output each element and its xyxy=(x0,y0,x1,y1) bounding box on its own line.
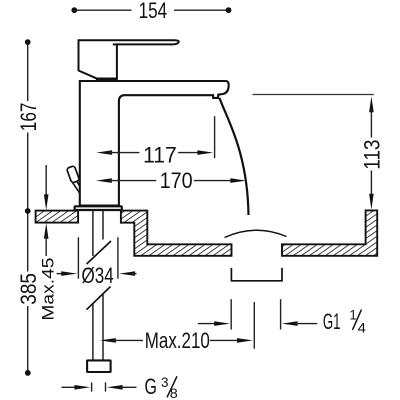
dimension 113 xyxy=(253,95,385,210)
pop-up waste dome xyxy=(225,230,287,237)
base flange xyxy=(75,206,122,210)
supply shank upper segment xyxy=(93,211,103,256)
svg-text:3: 3 xyxy=(161,374,169,390)
dimension 385 xyxy=(16,208,41,376)
svg-text:G1: G1 xyxy=(323,309,341,334)
faucet body and spout outline xyxy=(80,81,229,206)
svg-text:G: G xyxy=(145,374,157,399)
svg-text:1: 1 xyxy=(350,306,357,322)
dimension 170 xyxy=(96,168,246,193)
faucet handle lever and cartridge housing xyxy=(79,40,179,79)
svg-text:Max.210: Max.210 xyxy=(145,328,210,353)
supply shank lower segment xyxy=(93,294,103,361)
svg-text:Max.45: Max.45 xyxy=(38,258,57,321)
svg-text:113: 113 xyxy=(359,140,384,170)
svg-text:167: 167 xyxy=(16,103,41,132)
countertop right slab with right wall xyxy=(282,210,377,255)
side lever handle xyxy=(66,166,79,194)
svg-text:170: 170 xyxy=(160,168,193,193)
hose end fitting xyxy=(87,360,111,372)
svg-text:117: 117 xyxy=(143,142,177,167)
dimension G1 1/4 xyxy=(198,299,366,336)
dimension Max.210 xyxy=(100,302,254,353)
upper pipe break slash xyxy=(87,241,111,264)
countertop middle slab with bowl left wall xyxy=(121,211,232,256)
dimension 117 xyxy=(96,116,214,167)
dimension Max.45 xyxy=(38,165,57,321)
svg-text:4: 4 xyxy=(358,320,367,336)
svg-text:385: 385 xyxy=(16,273,41,305)
water stream arc xyxy=(220,98,249,215)
dimension 167 xyxy=(16,39,41,211)
svg-text:154: 154 xyxy=(139,0,168,23)
svg-text:8: 8 xyxy=(170,385,178,400)
drain tailpiece bracket xyxy=(231,268,282,281)
svg-text:Ø34: Ø34 xyxy=(82,263,114,288)
lower pipe break slash xyxy=(87,287,111,310)
dimension G 3/8 xyxy=(62,374,179,400)
dimension diameter 34 xyxy=(57,237,137,288)
dimension 154 xyxy=(71,0,231,23)
countertop left slab xyxy=(36,211,79,223)
